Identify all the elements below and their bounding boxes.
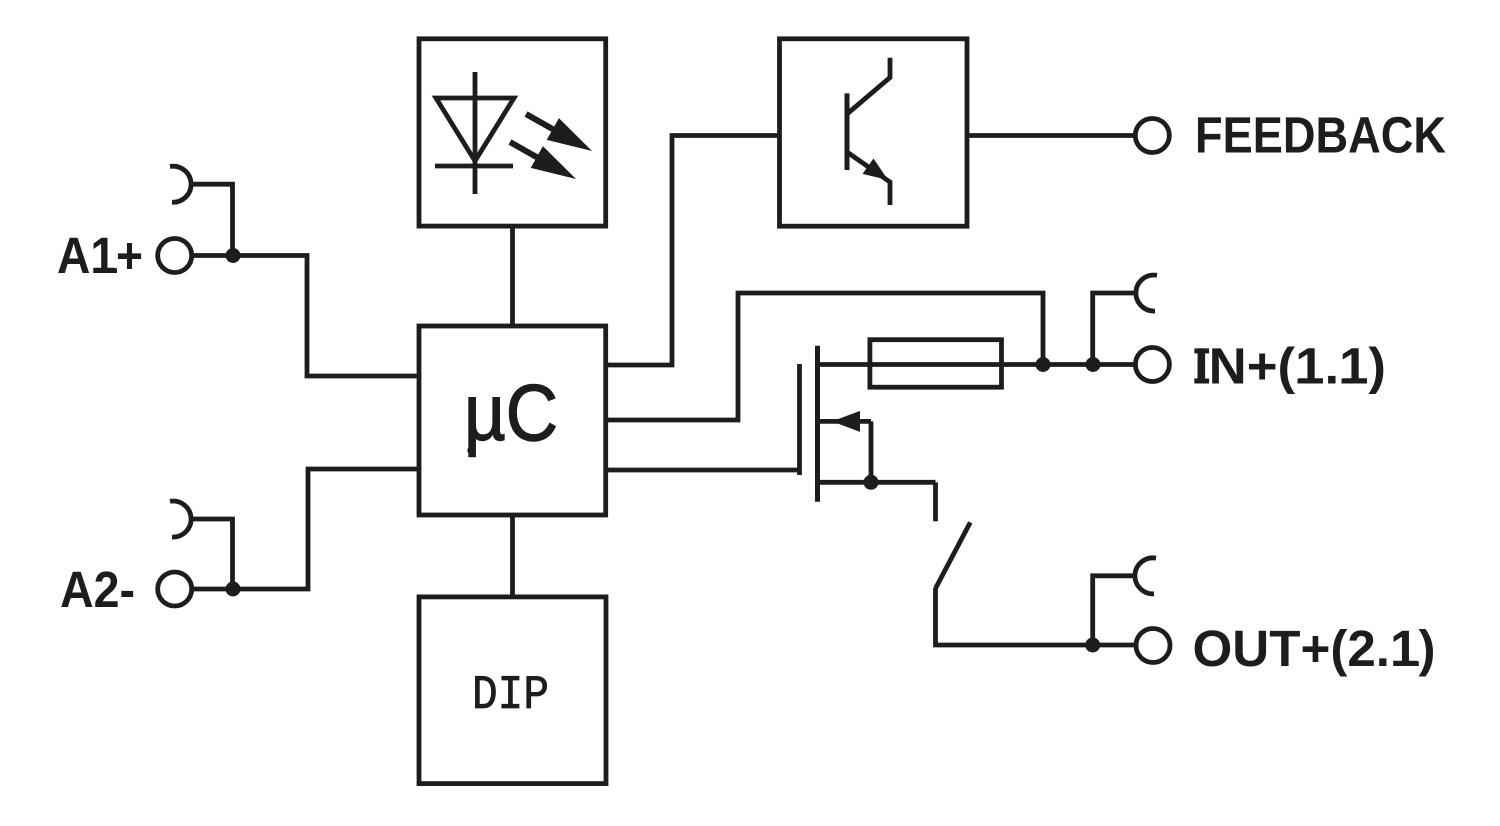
wire uC out3 to MOSFET gate xyxy=(606,468,800,473)
MOSFET Q2 body arrowhead xyxy=(832,411,860,432)
phototransistor Q1 emitter arrowhead xyxy=(863,159,889,181)
label IN letter I top serif xyxy=(1194,348,1209,353)
junction A2- xyxy=(226,582,241,597)
DIP switch box S2 xyxy=(419,597,606,784)
terminal A1+ xyxy=(158,239,192,273)
LED D1 emission arrow 2 xyxy=(510,142,576,179)
wire A1+ bridge stub xyxy=(191,184,233,255)
LED D1 triangle xyxy=(436,98,514,161)
phototransistor Q1 collector xyxy=(847,58,890,114)
phototransistor Q1 emitter xyxy=(847,152,890,205)
phototransistor box U1b xyxy=(780,39,968,226)
wire LED box to uC xyxy=(510,226,515,326)
bridge hook A2- xyxy=(170,501,191,537)
wire source down to switch xyxy=(933,482,938,521)
fuse F1 xyxy=(870,340,1002,388)
bridge hook IN+ xyxy=(1136,275,1157,311)
svg-text:DIP: DIP xyxy=(472,669,549,723)
terminal IN+ xyxy=(1135,348,1169,382)
svg-text:OUT+(2.1): OUT+(2.1) xyxy=(1193,620,1436,677)
microcontroller box U2 xyxy=(419,326,606,515)
wire IN+ bridge stub xyxy=(1093,293,1136,365)
junction on IN+ line (left) xyxy=(1036,357,1051,372)
label IN digit 1 foot serif (first) xyxy=(1298,379,1320,384)
label uC mu teardrop xyxy=(467,446,475,454)
junction source node xyxy=(864,475,879,490)
label IN letter I bottom serif xyxy=(1194,379,1209,384)
svg-text:FEEDBACK: FEEDBACK xyxy=(1195,107,1446,164)
svg-text:µC: µC xyxy=(464,368,558,457)
MOSFET Q2 gate bar xyxy=(797,364,802,475)
LED D1 anode line xyxy=(473,72,478,194)
terminal FEEDBACK xyxy=(1135,119,1169,153)
bridge hook OUT+ xyxy=(1135,558,1156,594)
optocoupler LED box U1a xyxy=(419,39,606,226)
junction on IN+ line (right) xyxy=(1086,357,1101,372)
label OUT digit 1 foot serif xyxy=(1397,661,1419,666)
svg-text:A1+: A1+ xyxy=(57,227,143,284)
wire switch to OUT+ xyxy=(936,588,1136,645)
wire A2- to uC xyxy=(192,469,419,589)
junction A1+ xyxy=(226,248,241,263)
switch S1 blade xyxy=(936,522,971,588)
label IN digit 1 foot serif (second) xyxy=(1342,379,1364,384)
wire phototransistor to FEEDBACK xyxy=(967,133,1134,138)
phototransistor Q1 body bar xyxy=(845,93,850,170)
MOSFET Q2 body line xyxy=(819,419,871,424)
wire uC out1 to phototransistor box xyxy=(606,136,780,366)
MOSFET Q2 source wire xyxy=(818,480,936,485)
junction on OUT+ line xyxy=(1085,638,1100,653)
wire A2- bridge stub xyxy=(191,519,233,589)
LED D1 emission arrow 1 xyxy=(526,114,592,151)
svg-text:A2-: A2- xyxy=(60,561,135,618)
wire uC to DIP box xyxy=(510,515,515,597)
wire OUT+ bridge stub xyxy=(1093,576,1135,645)
terminal A2- xyxy=(158,572,192,606)
LED D1 cathode bar xyxy=(435,164,513,169)
wire uC out2 over the top to IN+ node xyxy=(606,293,1043,420)
bridge hook A1+ xyxy=(170,166,191,202)
svg-text:IN+(1.1): IN+(1.1) xyxy=(1194,338,1386,395)
label A1 digit 1 foot serif xyxy=(96,268,117,273)
wire MOSFET drain through fuse to IN+ terminal xyxy=(815,362,1134,367)
wire A1+ to uC xyxy=(192,256,419,377)
MOSFET Q2 body drop wire xyxy=(869,421,874,482)
terminal OUT+ xyxy=(1136,629,1170,663)
MOSFET Q2 channel bar xyxy=(815,346,820,502)
